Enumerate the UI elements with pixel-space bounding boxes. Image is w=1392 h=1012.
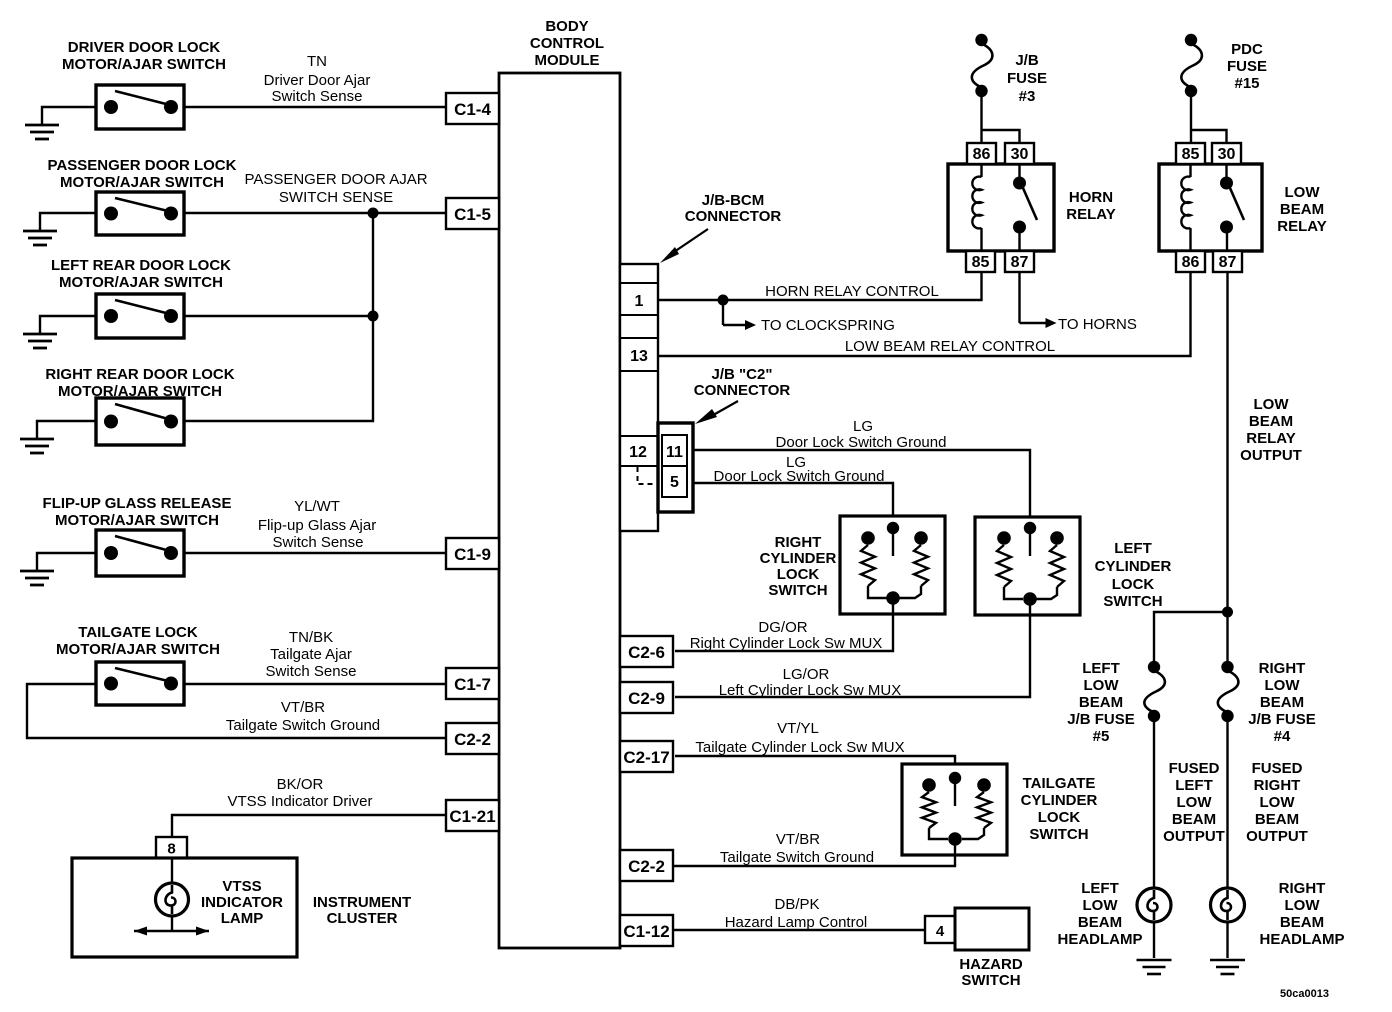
label: FUSED LEFT LOW BEAM OUTPUT — [1163, 760, 1225, 845]
label: RIGHT CYLINDER LOCK SWITCH — [760, 534, 837, 599]
svg-text:#15: #15 — [1234, 75, 1259, 92]
wire: flip-up switch ground lead — [37, 553, 96, 571]
label: PASSENGER DOOR LOCK MOTOR/AJAR SWITCH — [48, 157, 237, 191]
label: TO HORNS — [1058, 316, 1137, 333]
label: INSTRUMENT CLUSTER — [313, 894, 411, 927]
svg-text:HAZARD: HAZARD — [959, 956, 1022, 973]
svg-text:30: 30 — [1218, 146, 1236, 163]
svg-text:VTSS: VTSS — [222, 878, 261, 895]
wire: left headlamp to ground — [1153, 922, 1155, 958]
wire: left rear switch ground lead — [40, 316, 96, 334]
wire: right rear switch to junction riser — [184, 213, 373, 421]
svg-text:LEFT: LEFT — [1114, 540, 1152, 557]
label: PASSENGER DOOR AJAR SWITCH SENSE — [244, 171, 427, 206]
svg-text:BEAM: BEAM — [1255, 811, 1299, 828]
svg-text:C2-2: C2-2 — [454, 730, 491, 749]
svg-text:J/B: J/B — [1015, 52, 1039, 69]
wire: lamp to rail — [171, 916, 173, 931]
svg-text:HEADLAMP: HEADLAMP — [1260, 931, 1345, 948]
label: RIGHT REAR DOOR LOCK MOTOR/AJAR SWITCH — [45, 366, 234, 400]
label: BK/OR VTSS Indicator Driver — [227, 776, 372, 810]
rail with arrows (instrument cluster bus) — [134, 927, 209, 936]
svg-text:Tailgate Ajar: Tailgate Ajar — [270, 646, 352, 663]
svg-text:RIGHT REAR DOOR LOCK: RIGHT REAR DOOR LOCK — [45, 366, 234, 383]
svg-text:C2-17: C2-17 — [623, 748, 669, 767]
relay: horn relay — [948, 164, 1054, 251]
svg-text:LAMP: LAMP — [221, 910, 264, 927]
pin 11 (J/B C2 connector) — [666, 444, 683, 461]
svg-text:LOCK: LOCK — [1112, 576, 1155, 593]
svg-text:Door Lock Switch Ground: Door Lock Switch Ground — [714, 468, 885, 485]
svg-text:DB/PK: DB/PK — [774, 896, 819, 913]
svg-text:LOW BEAM RELAY CONTROL: LOW BEAM RELAY CONTROL — [845, 338, 1055, 355]
svg-text:BEAM: BEAM — [1260, 694, 1304, 711]
label: VTSS INDICATOR LAMP — [201, 878, 283, 927]
svg-text:CYLINDER: CYLINDER — [1021, 792, 1098, 809]
svg-text:CYLINDER: CYLINDER — [1095, 558, 1172, 575]
svg-text:SWITCH SENSE: SWITCH SENSE — [279, 189, 393, 206]
svg-text:CLUSTER: CLUSTER — [327, 910, 398, 927]
label: LEFT LOW BEAM HEADLAMP — [1058, 880, 1143, 948]
lamp: left low beam headlamp — [1137, 888, 1171, 922]
wire+arrow: to clockspring — [723, 300, 756, 330]
label: TN/BK Tailgate Ajar Switch Sense — [266, 629, 357, 680]
svg-text:MOTOR/AJAR SWITCH: MOTOR/AJAR SWITCH — [58, 383, 222, 400]
ground (passenger door switch) — [23, 231, 57, 245]
svg-text:BEAM: BEAM — [1280, 914, 1324, 931]
svg-text:Driver Door Ajar: Driver Door Ajar — [264, 72, 371, 89]
connector pin 8 (instrument cluster) — [156, 837, 187, 858]
wire: door lock switch ground (pin 5 to right cylinder switch) — [693, 483, 893, 522]
svg-text:TO HORNS: TO HORNS — [1058, 316, 1137, 333]
svg-text:5: 5 — [670, 474, 679, 491]
svg-text:VT/YL: VT/YL — [777, 720, 819, 737]
ground (left rear door switch) — [23, 334, 57, 348]
svg-text:12: 12 — [629, 444, 647, 461]
wire: flip-up glass ajar sense (switch to C1-9) — [184, 552, 448, 554]
label: VT/YL Tailgate Cylinder Lock Sw MUX — [695, 720, 904, 756]
label: RIGHT LOW BEAM HEADLAMP — [1260, 880, 1345, 948]
fuse: J/B fuse #3 — [972, 34, 993, 97]
wire: low beam relay output (pin 87 down) — [1226, 272, 1228, 612]
svg-text:86: 86 — [973, 146, 991, 163]
svg-text:Hazard Lamp Control: Hazard Lamp Control — [725, 914, 868, 931]
svg-text:50ca0013: 50ca0013 — [1280, 988, 1329, 1000]
svg-text:PASSENGER DOOR LOCK: PASSENGER DOOR LOCK — [48, 157, 237, 174]
svg-text:RIGHT: RIGHT — [775, 534, 822, 551]
pin 87 (horn relay) — [1005, 251, 1034, 272]
junction: door ajar sense at left rear wire — [368, 311, 379, 322]
component: hazard switch — [955, 908, 1029, 950]
wire: horn relay control (pin 1 to horn relay 85) — [658, 272, 982, 300]
svg-text:#4: #4 — [1274, 728, 1291, 745]
pin 87 (low beam relay) — [1213, 251, 1242, 272]
svg-text:TAILGATE LOCK: TAILGATE LOCK — [78, 624, 198, 641]
svg-text:LOW: LOW — [1177, 794, 1213, 811]
pin 86 (low beam relay) — [1176, 251, 1205, 272]
wire: branch to right low beam fuse — [1226, 612, 1228, 661]
svg-text:Flip-up Glass Ajar: Flip-up Glass Ajar — [258, 517, 376, 534]
svg-text:RIGHT: RIGHT — [1254, 777, 1301, 794]
svg-text:J/B FUSE: J/B FUSE — [1248, 711, 1316, 728]
junction: low beam output split — [1222, 607, 1233, 618]
svg-text:Switch Sense: Switch Sense — [266, 663, 357, 680]
svg-text:LEFT: LEFT — [1081, 880, 1119, 897]
svg-text:SWITCH: SWITCH — [768, 582, 827, 599]
ground (right rear door switch) — [20, 439, 54, 453]
pin 85 (low beam relay) — [1176, 143, 1205, 164]
box: instrument cluster — [72, 858, 297, 957]
svg-text:VT/BR: VT/BR — [776, 831, 820, 848]
svg-text:FUSE: FUSE — [1007, 70, 1047, 87]
svg-text:FUSED: FUSED — [1169, 760, 1220, 777]
wire: right headlamp to ground — [1226, 922, 1228, 958]
svg-text:CONNECTOR: CONNECTOR — [685, 208, 782, 225]
label: LOW BEAM RELAY — [1277, 184, 1326, 235]
pin 30 (horn relay) — [1005, 143, 1034, 164]
module: body control module — [499, 73, 620, 948]
wire: tailgate switch ground (to C2-2 left) — [27, 684, 448, 738]
svg-text:LEFT: LEFT — [1082, 660, 1120, 677]
svg-text:Left Cylinder Lock Sw MUX: Left Cylinder Lock Sw MUX — [719, 682, 902, 699]
svg-text:HEADLAMP: HEADLAMP — [1058, 931, 1143, 948]
label: figure id 50ca0013 — [1280, 988, 1329, 1000]
switch: right rear door lock motor/ajar switch — [96, 398, 184, 445]
lamp: right low beam headlamp — [1211, 888, 1245, 922]
svg-text:INDICATOR: INDICATOR — [201, 894, 283, 911]
svg-text:LEFT: LEFT — [1175, 777, 1213, 794]
switch: driver door lock motor/ajar switch — [96, 85, 184, 129]
svg-text:HORN RELAY CONTROL: HORN RELAY CONTROL — [765, 283, 939, 300]
label: LOW BEAM RELAY OUTPUT — [1240, 396, 1302, 464]
svg-text:OUTPUT: OUTPUT — [1240, 447, 1302, 464]
svg-text:CONNECTOR: CONNECTOR — [694, 382, 791, 399]
relay: low beam relay — [1159, 164, 1262, 251]
pin 86 (horn relay) — [967, 143, 996, 164]
label: LEFT CYLINDER LOCK SWITCH — [1095, 540, 1172, 610]
wire: tailgate cylinder lock sw mux (C2-17 to switch) — [675, 756, 955, 772]
svg-text:LOW: LOW — [1083, 897, 1119, 914]
svg-text:C1-9: C1-9 — [454, 545, 491, 564]
svg-text:MODULE: MODULE — [535, 52, 600, 69]
connector: J/B C2 connector (outer box) — [658, 423, 693, 512]
wire: pin 8 to lamp — [171, 858, 173, 884]
pin 1 (J/B-BCM connector) — [635, 293, 644, 310]
wire: VTSS indicator driver (C1-21 to cluster pin 8) — [172, 815, 448, 840]
label: PDC FUSE #15 — [1227, 41, 1267, 92]
label: DG/OR Right Cylinder Lock Sw MUX — [690, 619, 883, 652]
svg-text:C1-12: C1-12 — [623, 922, 669, 941]
label: FUSED RIGHT LOW BEAM OUTPUT — [1246, 760, 1308, 845]
connector C1-9 — [446, 538, 499, 569]
junction: horn relay control / clockspring tap — [718, 295, 729, 306]
pin 85 (horn relay) — [966, 251, 995, 272]
svg-text:87: 87 — [1011, 254, 1029, 271]
svg-text:BEAM: BEAM — [1172, 811, 1216, 828]
svg-text:87: 87 — [1219, 254, 1237, 271]
wire: branch to left low beam fuse — [1154, 612, 1228, 661]
label: TO CLOCKSPRING — [761, 317, 895, 334]
label: LG Door Lock Switch Ground (upper) — [776, 418, 947, 451]
svg-text:VT/BR: VT/BR — [281, 699, 325, 716]
wire: left cylinder lock sw mux (to C2-9) — [675, 605, 1030, 697]
svg-text:TN/BK: TN/BK — [289, 629, 333, 646]
connector C1-12 — [620, 915, 673, 946]
label: LEFT REAR DOOR LOCK MOTOR/AJAR SWITCH — [51, 257, 231, 291]
svg-text:Switch Sense: Switch Sense — [273, 534, 364, 551]
label: FLIP-UP GLASS RELEASE MOTOR/AJAR SWITCH — [43, 495, 232, 529]
svg-text:LG: LG — [853, 418, 873, 435]
connector: J/B-BCM connector strip (pins 1, 13, 12) — [620, 264, 658, 531]
svg-text:#5: #5 — [1093, 728, 1110, 745]
label: BODY CONTROL MODULE — [530, 18, 604, 69]
svg-text:MOTOR/AJAR SWITCH: MOTOR/AJAR SWITCH — [56, 641, 220, 658]
label: LOW BEAM RELAY CONTROL — [845, 338, 1055, 355]
switch: flip-up glass release motor/ajar switch — [96, 530, 184, 576]
switch: passenger door lock motor/ajar switch — [96, 192, 184, 235]
svg-text:RIGHT: RIGHT — [1279, 880, 1326, 897]
svg-text:OUTPUT: OUTPUT — [1246, 828, 1308, 845]
svg-text:LOW: LOW — [1084, 677, 1120, 694]
label: HAZARD SWITCH — [959, 956, 1022, 989]
label: DB/PK Hazard Lamp Control — [725, 896, 868, 931]
junction: door ajar sense at passenger wire — [368, 208, 379, 219]
wire+arrow: horn relay 87 to horns — [1020, 272, 1057, 328]
component: right cylinder lock switch — [840, 516, 945, 614]
leader arrow to J/B-BCM connector — [660, 229, 708, 263]
svg-text:TN: TN — [307, 53, 327, 70]
svg-text:1: 1 — [635, 293, 644, 310]
svg-text:C1-4: C1-4 — [454, 100, 491, 119]
wire: driver door ajar sense (switch to C1-4) — [184, 106, 448, 108]
wire: passenger switch ground lead — [40, 213, 96, 231]
connector C1-4 — [446, 93, 499, 124]
svg-text:LOW: LOW — [1260, 794, 1296, 811]
svg-text:CYLINDER: CYLINDER — [760, 550, 837, 567]
ground (right low beam headlamp) — [1210, 960, 1245, 974]
label: LEFT LOW BEAM J/B FUSE #5 — [1067, 660, 1135, 745]
connector C1-21 — [446, 800, 499, 831]
svg-text:85: 85 — [972, 254, 990, 271]
wire: hazard lamp control (C1-12 to hazard switch) — [672, 929, 927, 931]
pin 30 (low beam relay) — [1212, 143, 1241, 164]
svg-text:Door Lock Switch Ground: Door Lock Switch Ground — [776, 434, 947, 451]
svg-text:VTSS Indicator Driver: VTSS Indicator Driver — [227, 793, 372, 810]
wire: fuse #15 to low beam relay pins 85 and 30 — [1191, 95, 1227, 143]
svg-text:RELAY: RELAY — [1246, 430, 1295, 447]
svg-text:RIGHT: RIGHT — [1259, 660, 1306, 677]
svg-text:Tailgate Cylinder Lock Sw MUX: Tailgate Cylinder Lock Sw MUX — [695, 739, 904, 756]
svg-text:MOTOR/AJAR SWITCH: MOTOR/AJAR SWITCH — [60, 174, 224, 191]
wire: tailgate switch ground (to C2-2 right) — [672, 845, 955, 866]
label: HORN RELAY — [1066, 189, 1115, 223]
connector C2-17 — [620, 741, 673, 772]
label: YL/WT Flip-up Glass Ajar Switch Sense — [258, 498, 376, 551]
svg-text:PDC: PDC — [1231, 41, 1263, 58]
lamp: VTSS indicator lamp — [156, 883, 189, 916]
svg-text:SWITCH: SWITCH — [1029, 826, 1088, 843]
svg-text:MOTOR/AJAR SWITCH: MOTOR/AJAR SWITCH — [55, 512, 219, 529]
svg-text:PASSENGER DOOR AJAR: PASSENGER DOOR AJAR — [244, 171, 427, 188]
svg-text:Tailgate Switch Ground: Tailgate Switch Ground — [720, 849, 874, 866]
wire: right rear switch ground lead — [37, 421, 96, 439]
wire: right cylinder lock sw mux (to C2-6) — [675, 604, 893, 651]
connector C2-9 — [620, 682, 673, 713]
svg-text:Switch Sense: Switch Sense — [272, 88, 363, 105]
svg-text:FUSED: FUSED — [1252, 760, 1303, 777]
svg-text:C2-2: C2-2 — [628, 857, 665, 876]
label: TN Driver Door Ajar Switch Sense — [264, 53, 371, 105]
svg-text:TAILGATE: TAILGATE — [1023, 775, 1096, 792]
label: TAILGATE CYLINDER LOCK SWITCH — [1021, 775, 1098, 843]
svg-text:SWITCH: SWITCH — [1103, 593, 1162, 610]
svg-text:DG/OR: DG/OR — [758, 619, 807, 636]
svg-text:LOCK: LOCK — [777, 566, 820, 583]
dashed link pin 12 to pin 5 — [638, 467, 659, 484]
svg-text:Right Cylinder Lock Sw MUX: Right Cylinder Lock Sw MUX — [690, 635, 883, 652]
svg-text:85: 85 — [1182, 146, 1200, 163]
svg-text:TO CLOCKSPRING: TO CLOCKSPRING — [761, 317, 895, 334]
svg-text:BEAM: BEAM — [1249, 413, 1293, 430]
svg-text:LEFT REAR DOOR LOCK: LEFT REAR DOOR LOCK — [51, 257, 231, 274]
svg-text:HORN: HORN — [1069, 189, 1113, 206]
wire: fuse #3 to horn relay pins 86 and 30 — [982, 95, 1020, 143]
svg-text:BEAM: BEAM — [1078, 914, 1122, 931]
wire: door lock switch ground (pin 11 to left cylinder switch) — [693, 450, 1030, 522]
label: DRIVER DOOR LOCK MOTOR/AJAR SWITCH — [62, 39, 226, 73]
svg-text:30: 30 — [1011, 146, 1029, 163]
svg-text:11: 11 — [666, 444, 683, 461]
switch: tailgate lock motor/ajar switch — [96, 662, 184, 705]
svg-text:MOTOR/AJAR SWITCH: MOTOR/AJAR SWITCH — [62, 56, 226, 73]
svg-text:J/B "C2": J/B "C2" — [712, 366, 773, 383]
wire: tailgate ajar sense (switch to C1-7) — [184, 683, 448, 685]
wire: driver switch ground lead — [42, 107, 96, 125]
label: J/B C2 CONNECTOR — [694, 366, 791, 399]
fuse: right low beam J/B fuse #4 — [1218, 661, 1239, 722]
svg-text:RELAY: RELAY — [1066, 206, 1115, 223]
component: tailgate cylinder lock switch — [902, 764, 1007, 855]
svg-text:Tailgate Switch Ground: Tailgate Switch Ground — [226, 717, 380, 734]
svg-text:LG/OR: LG/OR — [783, 666, 830, 683]
svg-text:DRIVER DOOR LOCK: DRIVER DOOR LOCK — [68, 39, 221, 56]
svg-text:LOCK: LOCK — [1038, 809, 1081, 826]
label: RIGHT LOW BEAM J/B FUSE #4 — [1248, 660, 1316, 745]
switch: left rear door lock motor/ajar switch — [96, 294, 184, 338]
svg-text:C1-21: C1-21 — [449, 807, 495, 826]
svg-text:C2-6: C2-6 — [628, 643, 665, 662]
wire: left rear switch to junction — [184, 315, 373, 317]
ground (flip-up glass switch) — [20, 571, 54, 585]
connector pin 4 (hazard switch) — [925, 916, 955, 943]
label: HORN RELAY CONTROL — [765, 283, 939, 300]
svg-text:CONTROL: CONTROL — [530, 35, 604, 52]
label: LG Door Lock Switch Ground (lower) — [714, 454, 885, 485]
svg-text:FUSE: FUSE — [1227, 58, 1267, 75]
label: VT/BR Tailgate Switch Ground (right) — [720, 831, 874, 866]
svg-text:C1-7: C1-7 — [454, 675, 491, 694]
svg-text:8: 8 — [167, 841, 175, 858]
pin 13 (J/B-BCM connector) — [630, 348, 648, 365]
ground (driver door switch) — [25, 125, 59, 139]
svg-text:RELAY: RELAY — [1277, 218, 1326, 235]
wire: passenger door ajar sense (switch to C1-5) — [184, 212, 448, 214]
svg-text:LOW: LOW — [1265, 677, 1301, 694]
svg-text:MOTOR/AJAR SWITCH: MOTOR/AJAR SWITCH — [59, 274, 223, 291]
svg-text:13: 13 — [630, 348, 648, 365]
svg-text:BEAM: BEAM — [1280, 201, 1324, 218]
connector C2-2 (left, tailgate switch ground) — [446, 723, 499, 754]
wire: low beam relay control (pin 13 to low beam relay 86) — [658, 272, 1191, 356]
label: TAILGATE LOCK MOTOR/AJAR SWITCH — [56, 624, 220, 658]
svg-text:FLIP-UP GLASS RELEASE: FLIP-UP GLASS RELEASE — [43, 495, 232, 512]
connector C2-6 — [620, 636, 673, 667]
ground (left low beam headlamp) — [1137, 960, 1172, 974]
svg-text:#3: #3 — [1019, 88, 1036, 105]
connector C1-7 — [446, 668, 499, 699]
fuse: left low beam J/B fuse #5 — [1144, 661, 1165, 722]
component: left cylinder lock switch — [975, 517, 1080, 615]
svg-text:LOW: LOW — [1285, 184, 1321, 201]
leader arrow to J/B C2 connector — [695, 401, 738, 424]
svg-text:BEAM: BEAM — [1079, 694, 1123, 711]
connector C2-2 (right, tailgate switch ground) — [620, 850, 673, 881]
fuse: PDC fuse #15 — [1181, 34, 1202, 97]
svg-text:86: 86 — [1182, 254, 1200, 271]
connector C1-5 — [446, 198, 499, 229]
wire: fused right low beam output — [1226, 720, 1228, 888]
label: VT/BR Tailgate Switch Ground — [226, 699, 380, 734]
svg-text:4: 4 — [936, 923, 945, 940]
label: J/B FUSE #3 — [1007, 52, 1047, 105]
wire: fused left low beam output — [1153, 720, 1155, 888]
pin 12 (J/B C2 connector, BCM side) — [629, 444, 647, 461]
label: J/B-BCM CONNECTOR — [685, 192, 782, 225]
svg-text:LOW: LOW — [1285, 897, 1321, 914]
svg-text:LOW: LOW — [1254, 396, 1290, 413]
svg-text:J/B-BCM: J/B-BCM — [702, 192, 765, 209]
J/B C2 inner pin frame — [662, 435, 687, 497]
svg-text:OUTPUT: OUTPUT — [1163, 828, 1225, 845]
svg-text:BK/OR: BK/OR — [277, 776, 324, 793]
svg-text:SWITCH: SWITCH — [961, 972, 1020, 989]
svg-text:BODY: BODY — [545, 18, 588, 35]
svg-text:C2-9: C2-9 — [628, 689, 665, 708]
svg-text:YL/WT: YL/WT — [294, 498, 340, 515]
svg-text:J/B FUSE: J/B FUSE — [1067, 711, 1135, 728]
svg-text:C1-5: C1-5 — [454, 205, 491, 224]
svg-text:INSTRUMENT: INSTRUMENT — [313, 894, 411, 911]
label: LG/OR Left Cylinder Lock Sw MUX — [719, 666, 902, 699]
pin 5 (J/B C2 connector) — [670, 474, 679, 491]
